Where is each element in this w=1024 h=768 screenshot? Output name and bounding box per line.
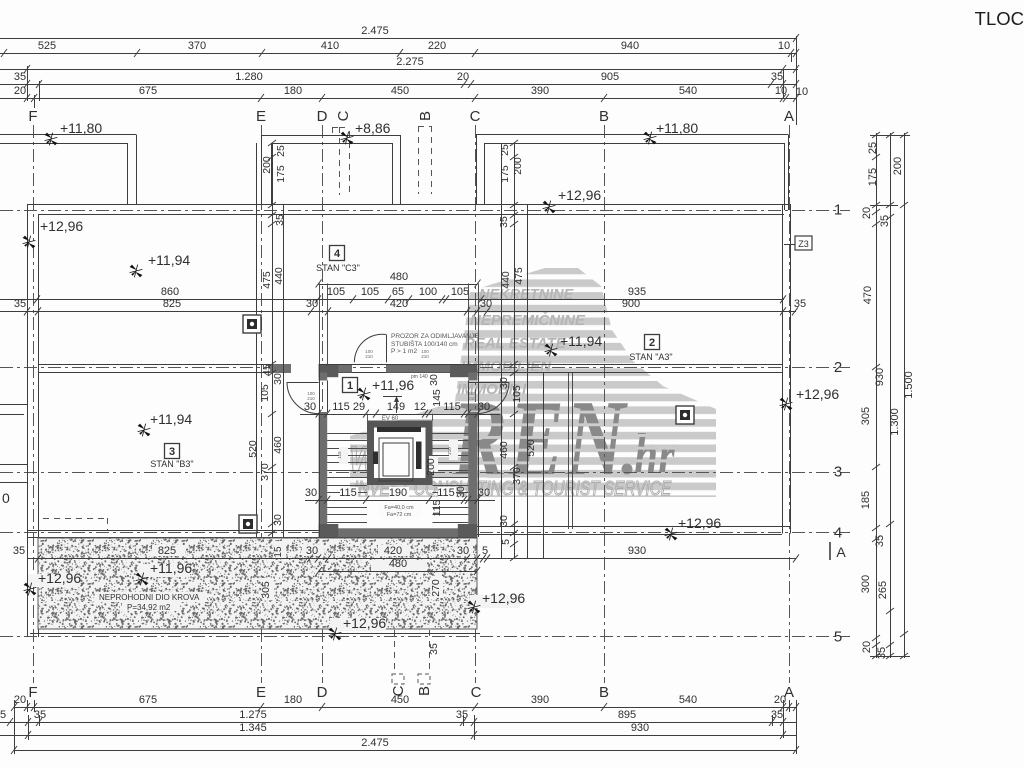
svg-text:35: 35 [274, 214, 286, 226]
svg-text:105: 105 [361, 286, 379, 298]
svg-text:20: 20 [457, 71, 469, 83]
svg-text:A: A [784, 108, 794, 125]
svg-text:+11,94: +11,94 [560, 333, 602, 349]
svg-text:190: 190 [389, 487, 407, 499]
svg-text:+12,96: +12,96 [343, 615, 386, 631]
svg-text:475: 475 [513, 267, 525, 285]
svg-text:200: 200 [892, 157, 904, 175]
svg-text:1.280: 1.280 [235, 71, 263, 83]
svg-text:STAN "A3": STAN "A3" [629, 352, 672, 362]
svg-text:30: 30 [428, 374, 440, 386]
svg-text:470: 470 [862, 286, 874, 304]
svg-text:NEPREMIČNINE: NEPREMIČNINE [470, 311, 586, 329]
svg-text:825: 825 [158, 545, 176, 557]
svg-text:930: 930 [628, 545, 646, 557]
svg-text:20: 20 [861, 641, 873, 653]
svg-text:180: 180 [284, 85, 302, 97]
svg-text:C: C [335, 110, 352, 121]
svg-text:210: 210 [365, 354, 373, 359]
svg-text:NEKRETNINE: NEKRETNINE [479, 287, 575, 303]
svg-text:105: 105 [327, 286, 345, 298]
svg-text:25: 25 [499, 144, 511, 156]
svg-text:Z3: Z3 [798, 239, 809, 249]
svg-text:+11,96: +11,96 [150, 560, 192, 576]
svg-text:480: 480 [390, 271, 408, 283]
svg-text:+11,80: +11,80 [656, 120, 698, 136]
svg-text:+12,96: +12,96 [558, 187, 601, 203]
svg-text:900: 900 [622, 298, 640, 310]
svg-text:460: 460 [272, 436, 284, 454]
svg-text:P=34,92 m2: P=34,92 m2 [127, 603, 171, 612]
svg-text:440: 440 [500, 271, 512, 289]
svg-text:20: 20 [861, 207, 873, 219]
svg-text:520: 520 [247, 440, 259, 458]
svg-text:+12,96: +12,96 [482, 590, 525, 606]
svg-text:105: 105 [259, 384, 271, 402]
svg-text:+12,96: +12,96 [38, 570, 81, 586]
svg-text:STAN "B3": STAN "B3" [150, 459, 193, 469]
svg-text:2: 2 [649, 337, 655, 349]
svg-text:30: 30 [498, 515, 510, 527]
svg-text:30: 30 [272, 514, 284, 526]
svg-text:2.475: 2.475 [361, 25, 389, 37]
svg-text:12: 12 [414, 401, 426, 413]
svg-text:305: 305 [260, 581, 272, 599]
svg-text:860: 860 [161, 286, 179, 298]
svg-text:175: 175 [867, 168, 879, 186]
svg-text:29: 29 [353, 401, 365, 413]
svg-text:4: 4 [834, 525, 842, 542]
svg-text:370: 370 [188, 40, 206, 52]
svg-text:4: 4 [334, 248, 341, 260]
svg-text:210: 210 [421, 354, 429, 359]
svg-text:30: 30 [304, 401, 316, 413]
svg-text:440: 440 [273, 267, 285, 285]
svg-text:B: B [599, 684, 609, 701]
svg-text:520: 520 [525, 439, 537, 457]
svg-text:35: 35 [456, 709, 468, 721]
svg-text:30: 30 [272, 373, 284, 385]
svg-text:35: 35 [498, 216, 510, 228]
svg-text:2: 2 [834, 359, 842, 376]
svg-text:+12,96: +12,96 [796, 386, 839, 402]
svg-text:115: 115 [332, 401, 350, 413]
svg-text:C: C [470, 108, 481, 125]
svg-text:825: 825 [163, 298, 181, 310]
svg-text:115: 115 [337, 451, 342, 459]
svg-text:1: 1 [834, 202, 842, 219]
svg-text:35: 35 [14, 298, 26, 310]
svg-text:200: 200 [512, 157, 524, 175]
svg-text:5: 5 [834, 629, 842, 646]
svg-text:210: 210 [468, 396, 476, 401]
svg-text:10: 10 [775, 85, 787, 97]
svg-text:A: A [836, 544, 846, 560]
svg-text:F: F [28, 108, 37, 125]
svg-text:20: 20 [14, 694, 26, 706]
svg-text:410: 410 [321, 40, 339, 52]
svg-text:935: 935 [628, 286, 646, 298]
svg-text:265: 265 [877, 581, 889, 599]
svg-text:20: 20 [774, 694, 786, 706]
svg-text:480: 480 [389, 558, 407, 570]
svg-text:pm 140: pm 140 [411, 374, 428, 380]
svg-text:B: B [417, 111, 434, 121]
svg-text:390: 390 [531, 85, 549, 97]
svg-text:30: 30 [457, 545, 469, 557]
svg-text:180: 180 [284, 694, 302, 706]
svg-text:F: F [28, 684, 37, 701]
svg-text:30: 30 [480, 298, 492, 310]
svg-text:145: 145 [431, 389, 443, 407]
svg-text:210: 210 [447, 447, 452, 455]
svg-text:220: 220 [428, 40, 446, 52]
svg-text:200: 200 [425, 458, 437, 476]
svg-text:+11,94: +11,94 [148, 252, 190, 268]
svg-text:115: 115 [437, 487, 455, 499]
svg-text:35: 35 [794, 298, 806, 310]
svg-text:370: 370 [511, 467, 523, 485]
svg-text:30: 30 [305, 487, 317, 499]
svg-text:35: 35 [428, 643, 440, 655]
svg-text:20: 20 [14, 85, 26, 97]
svg-text:10: 10 [778, 40, 790, 52]
svg-text:475: 475 [261, 271, 273, 289]
svg-text:370: 370 [259, 463, 271, 481]
svg-text:B: B [599, 108, 609, 125]
svg-text:5: 5 [0, 709, 6, 721]
svg-text:149: 149 [387, 401, 405, 413]
svg-text:+11,80: +11,80 [60, 120, 102, 136]
svg-text:525: 525 [38, 40, 56, 52]
svg-text:STUBIŠTA 100/140 cm: STUBIŠTA 100/140 cm [391, 339, 458, 348]
svg-text:5: 5 [500, 539, 512, 545]
svg-text:305: 305 [860, 407, 872, 425]
svg-text:+12,96: +12,96 [678, 515, 721, 531]
svg-text:30: 30 [306, 298, 318, 310]
svg-text:NEPROHODNI DIO KROVA: NEPROHODNI DIO KROVA [99, 593, 200, 602]
svg-text:+11,94: +11,94 [150, 411, 192, 427]
svg-text:25: 25 [275, 145, 287, 157]
svg-text:STAN "C3": STAN "C3" [316, 263, 360, 273]
svg-text:540: 540 [679, 694, 697, 706]
svg-text:Fa=72 cm: Fa=72 cm [387, 512, 412, 518]
svg-text:1.345: 1.345 [239, 722, 267, 734]
svg-text:35: 35 [13, 545, 25, 557]
svg-text:185: 185 [860, 491, 872, 509]
svg-text:E: E [256, 108, 266, 125]
svg-text:TLOC: TLOC [975, 8, 1024, 29]
svg-text:895: 895 [618, 709, 636, 721]
svg-text:PROZOR ZA ODIMLJAVANJE: PROZOR ZA ODIMLJAVANJE [391, 333, 479, 340]
svg-text:420: 420 [390, 298, 408, 310]
svg-text:930: 930 [874, 368, 886, 386]
svg-text:450: 450 [391, 85, 409, 97]
svg-text:Fa=40,0 cm: Fa=40,0 cm [384, 505, 414, 511]
svg-text:540: 540 [679, 85, 697, 97]
svg-text:2.275: 2.275 [396, 56, 424, 68]
svg-text:300: 300 [860, 575, 872, 593]
svg-text:460: 460 [498, 441, 510, 459]
svg-text:3: 3 [169, 446, 175, 458]
svg-text:940: 940 [621, 40, 639, 52]
svg-text:905: 905 [601, 71, 619, 83]
svg-text:D: D [317, 684, 328, 701]
svg-text:35: 35 [876, 647, 888, 659]
svg-text:420: 420 [384, 545, 402, 557]
svg-text:15: 15 [273, 546, 284, 558]
svg-text:175: 175 [275, 165, 287, 183]
svg-text:3: 3 [834, 464, 842, 481]
svg-text:930: 930 [631, 722, 649, 734]
svg-text:35: 35 [879, 215, 891, 227]
svg-text:D: D [317, 108, 328, 125]
svg-text:25: 25 [867, 142, 879, 154]
svg-text:100: 100 [419, 286, 437, 298]
svg-text:2.475: 2.475 [361, 737, 389, 749]
svg-text:65: 65 [392, 286, 404, 298]
svg-text:105: 105 [511, 385, 523, 403]
svg-text:390: 390 [531, 694, 549, 706]
svg-text:675: 675 [139, 694, 157, 706]
svg-text:115: 115 [443, 401, 461, 413]
svg-text:P > 1 m2: P > 1 m2 [391, 348, 417, 355]
svg-text:35: 35 [771, 71, 783, 83]
svg-text:450: 450 [391, 694, 409, 706]
svg-text:1.300: 1.300 [889, 408, 901, 436]
svg-text:115: 115 [431, 499, 443, 516]
svg-text:35: 35 [14, 71, 26, 83]
svg-text:1: 1 [347, 380, 353, 392]
svg-text:1.275: 1.275 [239, 709, 267, 721]
svg-text:+11,96: +11,96 [372, 377, 414, 393]
svg-text:35: 35 [874, 535, 886, 547]
svg-text:1.500: 1.500 [903, 371, 915, 399]
svg-text:270: 270 [430, 579, 442, 597]
svg-text:+12,96: +12,96 [40, 218, 83, 234]
svg-text:30: 30 [455, 486, 467, 498]
svg-text:C: C [471, 684, 482, 701]
svg-text:5: 5 [482, 545, 488, 557]
svg-text:0: 0 [2, 490, 10, 506]
svg-text:200: 200 [261, 156, 273, 174]
svg-text:B: B [416, 686, 433, 696]
svg-text:+8,86: +8,86 [355, 120, 391, 136]
svg-text:10: 10 [796, 86, 808, 98]
svg-text:30: 30 [306, 545, 318, 557]
svg-text:675: 675 [139, 85, 157, 97]
svg-text:175: 175 [499, 165, 511, 183]
svg-text:105: 105 [451, 286, 469, 298]
svg-text:E: E [256, 684, 266, 701]
svg-text:115: 115 [339, 487, 357, 499]
